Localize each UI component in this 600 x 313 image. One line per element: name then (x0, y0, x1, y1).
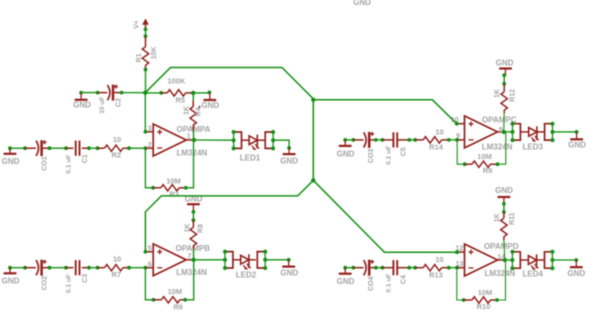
svg-text:GND: GND (2, 277, 20, 286)
svg-text:100K: 100K (167, 77, 186, 86)
svg-text:C3: C3 (82, 274, 89, 283)
svg-text:GND: GND (201, 101, 219, 110)
svg-text:10M: 10M (168, 287, 183, 296)
svg-text:GND: GND (495, 186, 513, 195)
svg-text:LM324N: LM324N (485, 269, 516, 278)
svg-text:R3: R3 (169, 190, 179, 199)
svg-text:R5: R5 (176, 95, 186, 104)
svg-text:R9: R9 (483, 166, 493, 175)
svg-text:GND: GND (337, 277, 355, 286)
svg-text:LED4: LED4 (522, 270, 543, 279)
svg-text:R11: R11 (509, 212, 516, 225)
svg-text:LED1: LED1 (240, 153, 261, 162)
svg-text:V+: V+ (134, 20, 141, 29)
svg-text:0.1 uF: 0.1 uF (66, 155, 73, 174)
svg-text:LM324N: LM324N (176, 268, 207, 277)
svg-text:CO3: CO3 (368, 149, 375, 164)
svg-text:1K: 1K (494, 213, 501, 222)
svg-text:GND: GND (568, 141, 586, 150)
svg-text:10M: 10M (166, 177, 181, 186)
svg-text:C5: C5 (401, 147, 408, 156)
svg-text:13: 13 (456, 261, 464, 268)
svg-text:1K: 1K (183, 106, 190, 115)
svg-text:10M: 10M (477, 152, 492, 161)
svg-text:R4: R4 (195, 107, 202, 116)
svg-text:GND: GND (2, 157, 20, 166)
svg-text:OPAMPD: OPAMPD (484, 242, 519, 251)
svg-text:7: 7 (188, 253, 192, 260)
svg-text:10: 10 (113, 254, 121, 263)
svg-text:R12: R12 (510, 89, 517, 102)
svg-text:14: 14 (497, 254, 505, 261)
svg-text:GND: GND (567, 269, 585, 278)
svg-text:LED2: LED2 (236, 270, 257, 279)
svg-text:8: 8 (499, 127, 503, 134)
svg-text:LM324N: LM324N (177, 148, 208, 157)
svg-text:3: 3 (148, 126, 152, 133)
svg-text:10M: 10M (478, 288, 493, 297)
svg-text:C4: C4 (401, 275, 408, 284)
svg-text:1K: 1K (185, 224, 192, 233)
svg-text:R10: R10 (477, 302, 491, 311)
svg-text:0.1 uF: 0.1 uF (66, 274, 73, 293)
svg-text:2: 2 (148, 142, 152, 149)
svg-text:10: 10 (435, 255, 443, 264)
svg-text:GND: GND (496, 58, 514, 67)
svg-text:CO4: CO4 (368, 276, 375, 291)
svg-text:GND: GND (280, 268, 298, 277)
svg-text:LED3: LED3 (522, 143, 543, 152)
svg-text:CO2: CO2 (41, 276, 48, 291)
svg-text:1: 1 (187, 133, 191, 140)
svg-text:R8: R8 (197, 224, 204, 233)
svg-text:GND: GND (353, 0, 371, 7)
svg-text:R14: R14 (429, 143, 444, 152)
svg-text:GND: GND (73, 101, 91, 110)
svg-text:1K: 1K (494, 89, 501, 98)
svg-text:R1: R1 (136, 53, 143, 62)
svg-text:CO1: CO1 (41, 156, 48, 171)
svg-text:9: 9 (456, 133, 460, 140)
svg-text:0.1 uF: 0.1 uF (385, 274, 392, 293)
svg-text:GND: GND (280, 157, 298, 166)
svg-text:C2: C2 (116, 98, 123, 107)
svg-text:R2: R2 (112, 150, 122, 159)
svg-text:10: 10 (113, 135, 121, 144)
svg-text:10K: 10K (151, 47, 158, 60)
svg-text:GND: GND (337, 149, 355, 158)
svg-text:R13: R13 (429, 270, 443, 279)
svg-text:R6: R6 (173, 302, 183, 311)
svg-text:LM324N: LM324N (482, 143, 513, 152)
svg-text:0.1 uF: 0.1 uF (385, 146, 392, 165)
svg-text:5: 5 (148, 245, 152, 252)
svg-text:10 uF: 10 uF (99, 97, 106, 114)
svg-text:10: 10 (435, 127, 443, 136)
svg-text:6: 6 (148, 261, 152, 268)
svg-text:R7: R7 (112, 270, 122, 279)
svg-text:C1: C1 (82, 154, 89, 163)
